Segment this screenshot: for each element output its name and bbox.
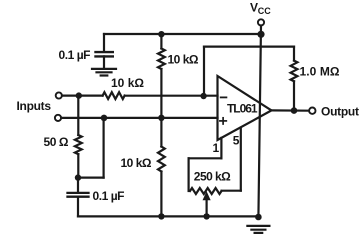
junction dot noninverting / divider: [158, 115, 164, 121]
resistor R2 10 kΩ (lower bias): [158, 147, 165, 172]
svg-text:0.1 µF: 0.1 µF: [59, 48, 91, 62]
wire inverting input line: [62, 94, 218, 96]
capacitor C1 0.1 µF lead: [103, 34, 105, 52]
wire link lower input to 50Ω bottom node: [78, 118, 104, 178]
junction dot Vcc rail: [257, 31, 264, 38]
resistor R1 10 kΩ (upper bias): [158, 49, 165, 70]
svg-text:10 kΩ: 10 kΩ: [111, 76, 144, 90]
potentiometer R6 250 kΩ element: [190, 188, 222, 194]
resistor R3 10 kΩ (input series): [103, 92, 125, 99]
junction dot inverting input / feedback: [200, 93, 206, 99]
svg-text:50 Ω: 50 Ω: [44, 135, 69, 149]
junction dot noninverting / link: [101, 115, 108, 122]
junction dot output node: [291, 107, 298, 114]
junction dot ground rail / divider: [158, 213, 164, 219]
svg-text:Inputs: Inputs: [17, 99, 52, 113]
capacitor C1 lower lead: [103, 56, 105, 68]
wire top supply rail: [104, 33, 261, 35]
terminal input upper circle: [56, 92, 62, 98]
wire noninverting input line: [61, 117, 217, 119]
wire op-amp pin 1 offset null: [189, 138, 222, 191]
svg-text:1: 1: [213, 141, 220, 155]
terminal input lower circle: [55, 115, 61, 121]
capacitor C2 0.1 µF bottom: [68, 178, 89, 217]
label Vcc: [250, 0, 271, 16]
svg-text:0.1 µF: 0.1 µF: [93, 189, 125, 203]
junction dot 50Ω bottom node: [75, 174, 81, 180]
wire output: [272, 109, 309, 111]
svg-text:5: 5: [233, 133, 240, 147]
svg-text:1.0 MΩ: 1.0 MΩ: [300, 64, 340, 78]
junction dot inverting input / 50Ω: [76, 92, 82, 98]
svg-text:TL061: TL061: [227, 102, 258, 116]
svg-text:10 kΩ: 10 kΩ: [168, 53, 199, 67]
resistor R5 1.0 MΩ feedback: [291, 61, 298, 82]
wire Vcc vertical (pin7 to pin4 ground line): [258, 26, 261, 219]
junction dot ground rail / supply line: [255, 214, 262, 221]
svg-text:10 kΩ: 10 kΩ: [121, 156, 152, 170]
capacitor C1 plates: [96, 52, 113, 56]
ground bottom right: [247, 226, 269, 233]
terminal Vcc circle: [258, 19, 264, 25]
wire bias divider vertical: [160, 34, 162, 216]
wire feedback loop: [204, 47, 294, 111]
svg-text:250 kΩ: 250 kΩ: [194, 169, 231, 183]
op-amp U1 minus sign: [221, 96, 227, 98]
potentiometer R6 wiper arrow: [203, 193, 210, 217]
resistor R4 50 Ω branch: [75, 96, 82, 178]
op-amp U1 plus sign: [220, 118, 226, 124]
junction dot ground rail / wiper: [203, 213, 209, 219]
terminal output circle: [309, 108, 315, 114]
junction dot bias top: [158, 31, 164, 37]
op-amp U1 TL061 triangle: [218, 76, 272, 140]
wire bottom ground rail: [78, 215, 258, 217]
svg-text:Output: Output: [321, 105, 359, 119]
svg-text:CC: CC: [258, 6, 272, 16]
ground under C1: [92, 69, 116, 76]
wire op-amp pin 5 offset null: [222, 128, 241, 191]
